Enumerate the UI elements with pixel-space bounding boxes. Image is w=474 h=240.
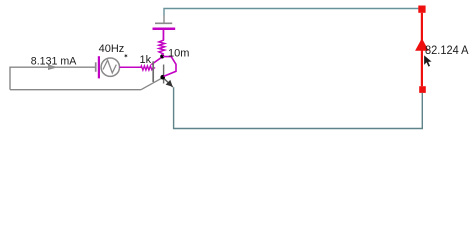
mouse cursor [424, 55, 433, 68]
AC source V1: waveform [103, 60, 116, 73]
svg-text:1k: 1k [140, 54, 152, 66]
wire: AC source to resistor (magenta) [120, 66, 141, 68]
ammeter wire (red): bottom terminal square [419, 86, 426, 93]
ammeter wire (red): vertical segment [421, 13, 423, 87]
battery B1: positive bar (magenta) [153, 27, 176, 30]
resistor R1 1k zigzag [141, 66, 156, 70]
transistor Q1: base bar [152, 61, 154, 82]
AC source V1: positive long bar [98, 56, 100, 78]
ammeter wire (red): current arrow up [415, 38, 429, 50]
node: base junction dot [160, 75, 165, 80]
svg-text:82.124 A: 82.124 A [425, 44, 469, 57]
asterisk marker [124, 54, 127, 58]
transistor Q1: vertical body line [163, 65, 165, 84]
inductor L1 10m coil [159, 30, 165, 55]
svg-text:8.131 mA: 8.131 mA [31, 56, 77, 68]
wire: left loop bottom [10, 89, 141, 91]
transistor Q1: emitter arrowhead [166, 80, 173, 87]
AC source V1: circle body [101, 58, 119, 76]
battery B1: negative lead stub [163, 15, 165, 23]
wire: diagonal from bottom loop to transistor base node [141, 78, 162, 89]
transistor Q1: emitter diagonal [163, 77, 173, 87]
wire: left loop left vertical [9, 67, 11, 90]
battery B1: negative bar (gray) [155, 22, 172, 24]
wire: left loop top [10, 66, 95, 68]
AC source V1: negative short bar [95, 62, 97, 72]
wire: resistor to collector node (diagonal magenta) [151, 57, 162, 65]
svg-text:10m: 10m [168, 47, 189, 59]
svg-text:40Hz: 40Hz [99, 43, 125, 55]
node: collector junction dot [160, 54, 164, 58]
wire: collector node elbow (magenta) [163, 57, 176, 77]
wire: top-left corner (teal) [164, 9, 418, 16]
battery B1: positive lead stub [163, 30, 165, 40]
ammeter wire (red, selected): top terminal square [418, 6, 425, 13]
wire: right vertical lower (teal) [174, 87, 423, 128]
current direction arrow on top wire [48, 64, 58, 70]
